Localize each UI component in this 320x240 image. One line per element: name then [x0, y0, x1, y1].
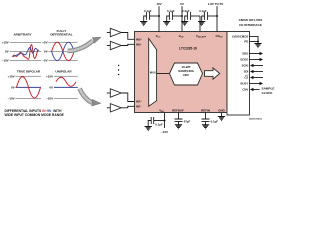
capacitor C4 0.1uF [204, 12, 207, 20]
waveform panel 3 blue 0V trace [16, 86, 41, 88]
wire A4 output to IN7- [121, 106, 134, 108]
node junction VEE [164, 120, 166, 122]
svg-text:1.8V TO 5V: 1.8V TO 5V [208, 2, 224, 6]
swoosh arrow bottom (waveforms to amps) [80, 89, 93, 103]
svg-text:CMOS OR LVDS: CMOS OR LVDS [239, 18, 263, 22]
wire A3 output to IN7+ [121, 93, 134, 102]
svg-text:+5V: +5V [42, 40, 47, 44]
op-amp buffer A3 (IN7+) [107, 92, 111, 94]
wire OVDD supply [216, 6, 218, 31]
wire SCKO out [250, 59, 260, 61]
svg-text:–10V: –10V [8, 97, 15, 101]
svg-text:0V: 0V [5, 50, 9, 54]
wire CS in [254, 77, 264, 79]
swoosh arrow top (waveforms to amps) [68, 41, 93, 51]
ground for LVDS/CMOS and PD [254, 44, 261, 48]
svg-text:SCKO: SCKO [240, 58, 249, 62]
svg-text:DIFFERENTIAL: DIFFERENTIAL [50, 33, 72, 37]
node junction PD [257, 41, 259, 43]
wire CNV in [254, 89, 260, 91]
wire GND pin [221, 113, 223, 117]
svg-text:LVDS/CMOS: LVDS/CMOS [232, 35, 249, 39]
waveform panel 3 red bipolar sine trace [17, 77, 41, 98]
wire SDI in [254, 71, 264, 73]
capacitor C7 0.1uF [202, 119, 210, 121]
node junction VCC [158, 15, 160, 17]
waveform panel 2 axis lines (FULLY DIFFERENTIAL) [49, 42, 78, 60]
svg-text:+10V: +10V [46, 74, 53, 78]
svg-text:ARBITRARY: ARBITRARY [13, 33, 32, 37]
svg-text:SDI: SDI [244, 70, 249, 74]
capacitor C2 0.1uF [169, 12, 172, 20]
wire VDD to C2 [173, 15, 182, 17]
wire REFBUF [178, 113, 180, 120]
digital I/O section (white box) [227, 32, 250, 116]
svg-text:CLOCK: CLOCK [262, 91, 274, 95]
svg-text:BUSY: BUSY [241, 82, 249, 86]
ground for C5 [145, 127, 152, 131]
wire PD to ground [250, 41, 259, 43]
waveform panel 4 red unipolar sine trace [56, 77, 76, 86]
waveform panel 4 blue 0V trace [54, 86, 78, 88]
waveform panel 2 blue inverted sine trace [52, 42, 75, 60]
capacitor C1 0.1uF [146, 12, 149, 20]
waveform panel 3 axis lines (TRUE BIPOLAR) [16, 76, 41, 98]
waveform panel 2 red sine trace [52, 42, 75, 60]
wire A2 output to IN0- [121, 44, 134, 45]
capacitor C5 0.1uF [151, 117, 154, 124]
svg-text:0.1µF: 0.1µF [211, 120, 219, 124]
capacitor C6 47uF [175, 119, 183, 121]
svg-text:REFIN: REFIN [201, 108, 210, 112]
svg-text:REFBUF: REFBUF [172, 108, 184, 112]
op-amp buffer A4 (IN7-) [107, 107, 111, 109]
svg-text:MUX: MUX [150, 71, 156, 75]
svg-text:0.1µF: 0.1µF [144, 9, 152, 13]
svg-text:10V: 10V [156, 2, 161, 6]
node junction OVDD [216, 15, 218, 17]
wire OVDD to C4 [208, 15, 217, 17]
svg-text:47µF: 47µF [184, 120, 191, 124]
svg-text:–10V: –10V [161, 130, 168, 134]
svg-text:I/O INTERFACE: I/O INTERFACE [239, 23, 262, 27]
data output block arrow [205, 68, 220, 79]
waveform panel 1 blue arbitrary trace [13, 48, 39, 57]
ground for GND pin [218, 117, 225, 121]
multiplexer MUX [149, 39, 157, 107]
svg-text:CS: CS [244, 76, 248, 80]
svg-text:LTC2335-16: LTC2335-16 [179, 47, 197, 51]
wire VEE to C5 [154, 120, 165, 122]
svg-text:WIDE INPUT COMMON MODE RANGE: WIDE INPUT COMMON MODE RANGE [5, 113, 65, 117]
svg-text:GND: GND [218, 108, 224, 112]
svg-text:0.1µF: 0.1µF [199, 9, 207, 13]
wire BUSY out [250, 83, 260, 85]
svg-text:CNV: CNV [242, 88, 248, 92]
ground for C3 [181, 22, 188, 26]
wire A1 output to IN0+ [121, 33, 134, 40]
svg-text:PD: PD [244, 40, 248, 44]
op-amp buffer A2 (IN0-) [107, 45, 111, 47]
ground for C4 [198, 22, 205, 26]
ground for C7 [202, 125, 209, 129]
capacitor C3 2.2uF [187, 12, 190, 20]
wire LVDS/CMOS to ground [250, 36, 259, 43]
svg-text:0V: 0V [49, 86, 53, 90]
ADC core hexagon 16-BIT SAMPLING ADC [170, 63, 203, 85]
wire SDO out [250, 53, 260, 55]
wire SCKI in [254, 65, 264, 67]
svg-text:0V: 0V [11, 86, 15, 90]
svg-text:ADC: ADC [183, 73, 190, 77]
svg-text:–10V: –10V [46, 97, 53, 101]
svg-text:0V: 0V [44, 50, 48, 54]
svg-text:UNIPOLAR: UNIPOLAR [55, 69, 72, 73]
wire MUX to ADC [157, 73, 170, 75]
svg-text:5V: 5V [180, 2, 184, 6]
svg-text:SCKI: SCKI [242, 64, 249, 68]
svg-text:0.1µF: 0.1µF [167, 9, 175, 13]
op-amp buffer A1 (IN0+) [107, 32, 111, 34]
vertical ellipsis between channel amps [118, 65, 119, 76]
svg-text:2.2µF: 2.2µF [182, 9, 190, 13]
wire REFIN [205, 113, 207, 120]
svg-text:TRUE BIPOLAR: TRUE BIPOLAR [17, 69, 41, 73]
svg-text:–5V: –5V [42, 59, 47, 63]
waveform panel 4 axis lines (UNIPOLAR) [54, 76, 78, 98]
ground for C6 [175, 125, 182, 129]
wire VDDLBYP bypass [199, 16, 201, 32]
waveform panel 1 axis lines (ARBITRARY) [10, 43, 42, 61]
svg-text:233516 TA01a: 233516 TA01a [249, 118, 263, 121]
svg-text:+10V: +10V [2, 41, 9, 45]
svg-text:SDO: SDO [242, 52, 249, 56]
svg-text:+10V: +10V [8, 74, 15, 78]
svg-text:0.1µF: 0.1µF [155, 122, 163, 126]
svg-text:SAMPLE: SAMPLE [262, 87, 275, 91]
ground for C2 [163, 22, 170, 26]
wire VCC supply [158, 6, 160, 31]
node junction VDD [181, 15, 183, 17]
ADC chip LTC2335-16 body [135, 32, 228, 113]
ground for C1 [140, 22, 147, 26]
wire VCC to C1 [150, 15, 159, 17]
svg-text:–10V: –10V [2, 59, 9, 63]
waveform panel 1 red arbitrary trace [13, 45, 39, 60]
wire VEE supply [164, 113, 166, 129]
wire VDD supply [181, 6, 183, 31]
